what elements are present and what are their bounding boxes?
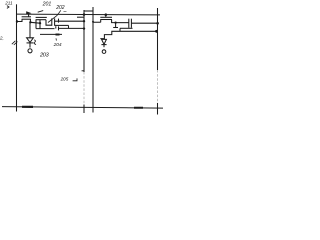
svg-text:201: 201: [42, 2, 52, 8]
svg-text:203: 203: [39, 52, 50, 58]
svg-text:2,: 2,: [0, 35, 4, 40]
svg-text:205: 205: [60, 76, 69, 81]
svg-text:204: 204: [53, 42, 62, 48]
svg-text:211: 211: [4, 0, 13, 5]
svg-text:202: 202: [55, 5, 65, 11]
